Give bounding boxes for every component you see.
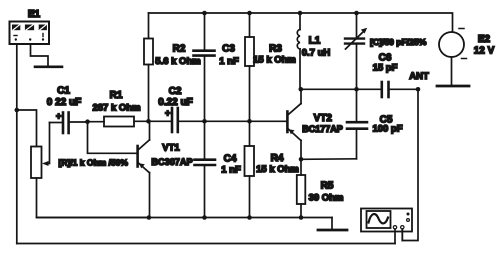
node R3 top rail [247,11,252,16]
svg-text:BC307AP: BC307AP [151,157,192,167]
svg-text:R4: R4 [271,153,284,164]
node collector VT2 / ANT line [299,87,304,92]
capacitor C1 [50,111,88,133]
svg-text:5.6 k Ohm: 5.6 k Ohm [155,56,200,67]
node emitter VT2 [299,157,304,162]
node C3/C4 top rail [202,11,207,16]
svg-text:[C]/50 pF/25%: [C]/50 pF/25% [370,37,427,47]
svg-text:0.7 uH: 0.7 uH [302,48,331,59]
node base VT1 [85,119,90,124]
svg-text:15 k Ohm: 15 k Ohm [253,55,296,66]
wire scope left terminal to rail B [394,229,396,244]
node variable cap top rail [354,11,359,16]
svg-text:15 pF: 15 pF [373,63,398,74]
wire junction to pot top [17,110,37,147]
svg-text:VT2: VT2 [314,113,333,124]
node junction on left wire [14,108,19,113]
svg-text:287 k Ohm: 287 k Ohm [92,103,140,114]
resistor R2 [148,13,150,39]
node C3/C4 mid rail [202,119,207,124]
svg-text:VT1: VT1 [162,143,180,154]
ground (E2) [437,85,469,88]
capacitor C5 [301,89,367,159]
svg-text:E2: E2 [478,34,491,45]
ground (rail A) [331,218,333,230]
wire node down to VT1 base [88,122,137,154]
svg-text:R2: R2 [173,44,186,55]
svg-text:100 pF: 100 pF [372,124,402,135]
wire pot bottom to rail A [37,178,149,218]
svg-text:R5: R5 [321,181,334,192]
node collector VT1 [146,119,151,124]
mid rail to VT2 base [205,120,287,122]
svg-text:L1: L1 [309,36,321,47]
svg-text:E1: E1 [28,9,41,20]
svg-text:[R]/1 k Ohm /50%: [R]/1 k Ohm /50% [59,158,129,168]
svg-text:39 Ohm: 39 Ohm [309,193,344,204]
resistor R3 [249,13,251,37]
node C5 / ANT line [354,87,359,92]
capacitor C3 [194,13,215,121]
inductor L1 [297,13,300,89]
top rail [149,13,453,32]
variable capacitor [C] [345,13,367,89]
capacitor C2 [149,108,205,132]
svg-text:R1: R1 [110,90,123,101]
resistor R4 [249,121,251,146]
svg-text:BC177AP: BC177AP [302,124,343,134]
svg-text:C1: C1 [57,86,70,97]
wire scope right terminal [401,229,403,241]
svg-text:0 22 uF: 0 22 uF [47,97,81,108]
svg-text:ANT: ANT [409,71,429,82]
battery E2 [439,29,467,86]
svg-text:12 V: 12 V [474,46,495,57]
svg-text:C3: C3 [222,44,235,55]
potentiometer R [31,147,42,179]
resistor R1 [104,117,134,127]
ground (E1) [35,66,62,69]
wire ANT line [301,88,381,90]
svg-text:0.22 uF: 0.22 uF [158,97,192,108]
svg-text:C4: C4 [224,154,237,165]
wire E1 left pin down to bottom rail [16,44,18,244]
capacitor C6 [382,82,418,97]
connector E1 [10,22,50,45]
transistor VT2 [287,89,301,159]
node L1 top rail [298,11,303,16]
oscilloscope E3 [361,209,412,232]
transistor VT1 [138,121,150,217]
wire E1 middle pin to ground [31,44,49,66]
svg-text:+: + [56,111,61,121]
svg-text:1 nF: 1 nF [219,56,239,67]
resistor R5 [300,159,302,175]
svg-text:+: + [165,108,170,118]
node ANT [416,87,421,92]
wiper arrow wire [46,123,50,164]
svg-text:C2: C2 [169,86,182,97]
svg-text:R3: R3 [269,44,282,55]
rail B (bottom rail) [17,243,395,245]
capacitor C4 [195,121,216,217]
wire ANT down to scope [402,89,418,240]
rail A (ground rail) [37,217,333,219]
node R3/R4 mid rail [247,119,252,124]
svg-text:15 k Ohm: 15 k Ohm [256,164,299,175]
svg-text:1 nF: 1 nF [221,165,241,176]
